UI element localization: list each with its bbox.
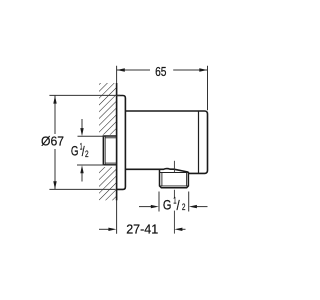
svg-text:2: 2 (85, 149, 89, 160)
svg-text:G: G (71, 143, 79, 159)
wall section hatch upper (99, 83, 117, 135)
outlet arrow pointing right (139, 206, 152, 208)
dimension 27-41 arrow pointing right (99, 228, 109, 230)
outlet arrow pointing left (196, 206, 207, 208)
inlet stub thread root bottom (105, 162, 117, 164)
inlet arrow up (81, 173, 83, 182)
svg-text:G: G (163, 198, 172, 213)
inlet G1/2 dimension extension bottom (77, 164, 104, 166)
arrow right of 65 (199, 68, 207, 71)
outlet nipple G1/2 (160, 169, 189, 187)
nipple thread top line (160, 172, 189, 174)
nipple thread root left (161, 173, 163, 187)
svg-text:27-41: 27-41 (126, 221, 158, 236)
body outline top and right (125, 111, 207, 173)
wall flange escutcheon (117, 96, 126, 190)
dimension O67 extension top (49, 94, 120, 96)
svg-text:Ø67: Ø67 (41, 133, 64, 148)
dimension O67 line (54, 95, 56, 134)
inlet stub thread root top (105, 137, 117, 139)
svg-text:/: / (177, 198, 180, 213)
nipple thread root right (186, 173, 188, 187)
nipple inner bottom line (160, 185, 189, 187)
dimension 65 line (117, 69, 150, 71)
body front cap line (198, 111, 200, 173)
centerline of outlet (173, 161, 175, 173)
inlet stub chamfer line (104, 136, 106, 165)
dimension 27-41 arrow pointing left (182, 228, 186, 230)
wall section hatch lower (99, 167, 117, 200)
inlet stub G1/2 behind wall (103, 136, 116, 165)
dimension 65 extension line right (207, 66, 209, 110)
wall face line / extension line (116, 66, 118, 234)
inlet G1/2 dimension extension top (78, 135, 105, 137)
dimension O67 extension bottom (49, 188, 115, 190)
arrow up O67 (53, 96, 56, 104)
outlet G1/2 dimension extension right (188, 192, 190, 212)
arrow left of 65 (117, 68, 125, 71)
outlet G1/2 dimension extension left (158, 192, 160, 212)
arrow down O67 (53, 181, 56, 189)
body bottom edge with boss bump (125, 169, 188, 173)
svg-text:65: 65 (155, 64, 166, 79)
inlet arrow down (81, 119, 83, 129)
svg-text:2: 2 (182, 202, 186, 213)
